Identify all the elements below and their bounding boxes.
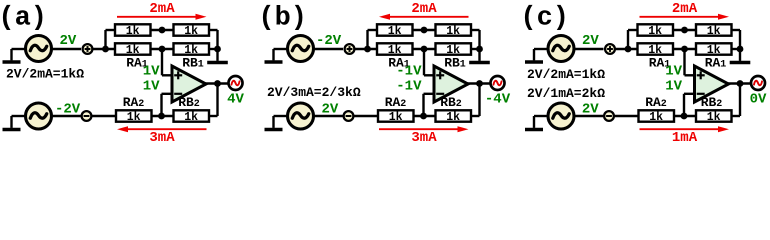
ground: [272, 116, 274, 128]
op-amp U1b: [434, 66, 468, 102]
svg-text:-4V: -4V: [485, 92, 511, 108]
svg-text:1k: 1k: [126, 25, 140, 38]
current arrow 2mA (top): [640, 14, 730, 20]
AC voltage source V1a: [26, 36, 52, 62]
wire: [354, 115, 379, 117]
resistor RA1a-upper 1k: [115, 24, 151, 38]
resistor RB1b-upper 1k: [436, 24, 472, 38]
resistor RA1c-upper 1k: [696, 24, 732, 38]
wire: [106, 29, 116, 31]
current arrow 2mA (top): [379, 14, 469, 20]
junction: [681, 46, 688, 53]
svg-text:2V/2mA=1kΩ: 2V/2mA=1kΩ: [527, 67, 605, 82]
wire: [205, 82, 229, 84]
svg-text:-1V: -1V: [396, 64, 422, 80]
svg-text:1V: 1V: [665, 64, 682, 80]
output meter Mc: [751, 76, 765, 90]
ground: [10, 49, 12, 60]
junction: [158, 113, 165, 120]
node + (summing input b): [345, 44, 355, 54]
svg-text:1k: 1k: [707, 111, 721, 124]
wire: [732, 115, 741, 117]
svg-text:-2V: -2V: [55, 102, 81, 118]
wire: [534, 48, 548, 50]
ground: [739, 49, 741, 61]
AC voltage source V1c: [548, 36, 574, 62]
current arrow 1mA (bottom): [640, 126, 730, 132]
wire: [274, 115, 288, 117]
svg-text:2mA: 2mA: [149, 1, 175, 17]
wire: [683, 49, 685, 75]
current arrow 3mA (bottom): [117, 126, 207, 132]
svg-text:1k: 1k: [184, 111, 198, 124]
wire: [92, 115, 117, 117]
wire: [424, 93, 435, 95]
svg-text:-2V: -2V: [316, 33, 342, 49]
wire: [732, 48, 741, 50]
junction: [476, 46, 483, 53]
svg-text:1V: 1V: [143, 79, 160, 95]
wire: [313, 115, 343, 117]
junction: [159, 27, 166, 34]
svg-text:2V: 2V: [582, 33, 599, 49]
resistor RA2b 1k: [378, 110, 414, 124]
wire: [160, 94, 162, 116]
AC voltage source V2c: [548, 103, 574, 129]
wire: [12, 115, 26, 117]
wire: [471, 29, 480, 31]
wire: [209, 115, 218, 117]
wire: [574, 48, 604, 50]
junction (output node): [737, 80, 744, 87]
wire: [209, 48, 218, 50]
node - (inverting input a): [82, 111, 92, 121]
wire: [162, 74, 172, 76]
junction: [102, 46, 109, 53]
svg-text:2V: 2V: [582, 102, 599, 118]
svg-text:1k: 1k: [446, 25, 460, 38]
resistor RB2c 1k: [696, 110, 732, 124]
wire: [471, 48, 480, 50]
junction (output node): [476, 80, 483, 87]
wire: [627, 30, 629, 49]
wire: [51, 48, 81, 50]
junction (output node): [214, 80, 221, 87]
wire: [413, 29, 436, 31]
ground: [216, 49, 218, 61]
svg-text:1k: 1k: [127, 111, 141, 124]
AC voltage source V1b: [288, 36, 314, 62]
output meter Mb: [491, 76, 505, 90]
ground: [533, 49, 535, 60]
junction: [681, 27, 688, 34]
svg-text:(c): (c): [520, 4, 569, 34]
junction: [681, 113, 688, 120]
current arrow 2mA (top): [117, 14, 207, 20]
wire (feedback): [739, 84, 741, 117]
node - (inverting input c): [604, 111, 614, 121]
svg-text:2V/1mA=2kΩ: 2V/1mA=2kΩ: [527, 86, 605, 101]
resistor RA1b-lower 1k: [377, 43, 413, 57]
resistor RB1a-upper 1k: [174, 24, 210, 38]
wire: [673, 48, 696, 50]
wire: [673, 29, 696, 31]
junction: [421, 46, 428, 53]
node - (inverting input b): [344, 111, 354, 121]
svg-text:1V: 1V: [143, 64, 160, 80]
wire: [478, 30, 480, 49]
wire: [366, 30, 368, 49]
junction: [159, 46, 166, 53]
svg-text:1k: 1k: [389, 111, 403, 124]
wire: [151, 48, 174, 50]
wire: [413, 48, 436, 50]
wire: [162, 93, 173, 95]
wire: [368, 29, 378, 31]
wire: [93, 48, 116, 50]
wire: [209, 29, 218, 31]
wire: [274, 48, 288, 50]
svg-text:0V: 0V: [750, 92, 767, 108]
wire: [424, 74, 434, 76]
wire: [728, 82, 752, 84]
ground: [10, 116, 12, 128]
wire: [574, 115, 604, 117]
svg-text:2V: 2V: [60, 33, 77, 49]
ground: [478, 49, 480, 61]
current arrow 3mA (bottom): [379, 126, 469, 132]
resistor RA1c-lower 1k: [696, 43, 732, 57]
svg-text:2V/3mA=2/3kΩ: 2V/3mA=2/3kΩ: [267, 85, 361, 100]
resistor RB1b-lower 1k: [436, 43, 472, 57]
wire: [216, 30, 218, 49]
resistor RA1c-lower 1k: [638, 43, 674, 57]
node + (summing input c): [605, 44, 615, 54]
resistor RB2b 1k: [436, 110, 472, 124]
wire: [152, 115, 174, 117]
wire: [471, 115, 480, 117]
AC voltage source V2b: [288, 103, 314, 129]
svg-text:4V: 4V: [227, 92, 244, 108]
resistor RA1a-lower 1k: [115, 43, 151, 57]
op-amp U1a: [172, 66, 206, 102]
wire: [732, 29, 741, 31]
svg-text:2V: 2V: [322, 102, 339, 118]
wire: [614, 115, 639, 117]
wire: [51, 115, 81, 117]
svg-text:1k: 1k: [184, 25, 198, 38]
junction: [214, 46, 221, 53]
wire: [104, 30, 106, 49]
node + (summing input a): [83, 44, 93, 54]
AC voltage source V2a: [26, 103, 52, 129]
wire: [313, 48, 343, 50]
wire: [628, 29, 638, 31]
svg-text:3mA: 3mA: [149, 130, 175, 146]
svg-text:2V/2mA=1kΩ: 2V/2mA=1kΩ: [6, 67, 84, 82]
junction: [625, 46, 632, 53]
svg-text:1k: 1k: [388, 25, 402, 38]
svg-text:1k: 1k: [649, 111, 663, 124]
svg-text:2mA: 2mA: [672, 1, 698, 17]
svg-text:1V: 1V: [665, 79, 682, 95]
wire: [684, 93, 695, 95]
wire: [674, 115, 696, 117]
svg-text:1k: 1k: [648, 25, 662, 38]
junction: [737, 46, 744, 53]
wire (feedback): [478, 84, 480, 117]
svg-text:(b): (b): [258, 4, 307, 34]
wire: [355, 48, 378, 50]
junction: [421, 27, 428, 34]
wire: [161, 49, 163, 75]
resistor RA1c-upper 1k: [638, 24, 674, 38]
svg-text:3mA: 3mA: [411, 130, 437, 146]
resistor RA2a 1k: [116, 110, 152, 124]
wire: [467, 82, 491, 84]
wire: [151, 29, 174, 31]
junction: [420, 113, 427, 120]
wire: [615, 48, 638, 50]
resistor RA1b-upper 1k: [377, 24, 413, 38]
wire: [685, 74, 695, 76]
svg-text:1k: 1k: [707, 25, 721, 38]
wire (feedback): [216, 84, 218, 117]
wire: [534, 115, 548, 117]
svg-text:-1V: -1V: [396, 79, 422, 95]
svg-text:2mA: 2mA: [411, 1, 437, 17]
svg-text:1mA: 1mA: [672, 130, 698, 146]
wire: [422, 94, 424, 116]
junction: [364, 46, 371, 53]
ground: [272, 49, 274, 60]
wire: [739, 30, 741, 49]
wire: [12, 48, 26, 50]
wire: [414, 115, 436, 117]
wire: [423, 49, 425, 75]
resistor RA2c 1k: [639, 110, 675, 124]
wire: [683, 94, 685, 116]
svg-text:1k: 1k: [446, 111, 460, 124]
svg-text:(a): (a): [0, 4, 47, 34]
output meter Ma: [229, 76, 243, 90]
resistor RB2a 1k: [174, 110, 210, 124]
op-amp U1c: [695, 66, 729, 102]
ground: [533, 116, 535, 128]
resistor RB1a-lower 1k: [174, 43, 210, 57]
